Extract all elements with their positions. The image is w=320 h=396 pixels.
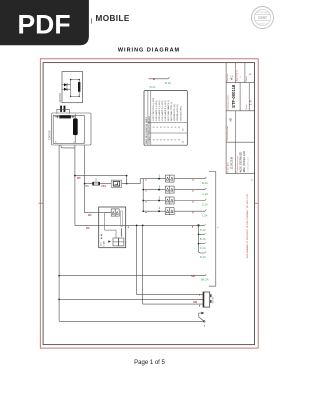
svg-text:M6: M6: [191, 274, 195, 278]
svg-text:M.C.: M.C.: [229, 74, 233, 80]
svg-text:Drawing number: Drawing number: [227, 95, 229, 110]
svg-text:F5/1: F5/1: [101, 185, 106, 188]
svg-text:APPROVED: APPROVED: [257, 11, 269, 14]
svg-text:LIVE LAMP 2 (+12V): LIVE LAMP 2 (+12V): [158, 100, 161, 121]
svg-text:D6: D6: [86, 226, 90, 230]
svg-text:B 2A: B 2A: [202, 181, 208, 185]
svg-text:C 2A: C 2A: [200, 246, 206, 250]
svg-text:2462, 1500rpm, ECU: 2462, 1500rpm, ECU: [243, 150, 246, 172]
svg-text:Sheet: Sheet: [245, 76, 248, 82]
svg-text:SIGNAL ECU (S): SIGNAL ECU (S): [173, 104, 176, 121]
svg-text:R 2A: R 2A: [200, 255, 206, 259]
svg-text:NEUTRAL CTRL (-): NEUTRAL CTRL (-): [170, 102, 173, 121]
svg-text:Checked by date: Checked by date: [226, 125, 229, 141]
svg-text:STATOR: STATOR: [48, 130, 51, 140]
svg-text:B5: B5: [88, 213, 92, 217]
svg-text:LIVE LAMP 4 (+12V): LIVE LAMP 4 (+12V): [164, 100, 167, 121]
svg-text:M2: M2: [228, 117, 232, 121]
svg-text:12.09.2016: 12.09.2016: [231, 156, 234, 169]
svg-text:Product name type: Product name type: [236, 155, 239, 173]
svg-text:WIRE DESIGNATION TABLE: WIRE DESIGNATION TABLE: [145, 116, 148, 144]
svg-text:W 2A: W 2A: [150, 86, 156, 89]
svg-text:C 2A: C 2A: [202, 192, 208, 196]
svg-text:WIRING DIAGRAM: WIRING DIAGRAM: [118, 48, 180, 54]
svg-text:GROUND (PE): GROUND (PE): [180, 106, 182, 121]
svg-text:THIS DRAWING IS PROPERTY OF TH: THIS DRAWING IS PROPERTY OF THE COMPANY …: [246, 193, 249, 259]
svg-text:L 2A: L 2A: [202, 213, 208, 217]
svg-text:M6: M6: [193, 300, 197, 304]
svg-text:Approved by: Approved by: [236, 70, 239, 81]
svg-text:CERT: CERT: [258, 16, 268, 20]
svg-text:1 :A: 1 :A: [248, 100, 252, 105]
svg-text:rev 02 custom part: rev 02 custom part: [246, 157, 249, 172]
svg-text:4x300, D233W LED: 4x300, D233W LED: [240, 152, 242, 173]
svg-text:W 2A: W 2A: [165, 81, 172, 85]
svg-text:LIVE LAMP 1 (+12V): LIVE LAMP 1 (+12V): [155, 100, 158, 121]
svg-text:NEUTRAL LAMPS (-): NEUTRAL LAMPS (-): [167, 100, 170, 121]
svg-text:D6: D6: [77, 176, 81, 180]
svg-text:Z 2A: Z 2A: [202, 203, 208, 207]
svg-text:MOBILE: MOBILE: [96, 14, 130, 23]
svg-text:STF-000118: STF-000118: [231, 84, 236, 108]
svg-text:PDF: PDF: [18, 9, 71, 39]
svg-text:M6 2A: M6 2A: [201, 277, 209, 281]
svg-text:LIVE CONTROL (+12V): LIVE CONTROL (+12V): [153, 98, 155, 121]
svg-text:--: --: [240, 76, 243, 78]
svg-text:Revision: Revision: [227, 74, 229, 82]
svg-text:Scale: Scale: [246, 104, 248, 110]
svg-text:MOTOR: MOTOR: [59, 93, 62, 102]
svg-text:CONNECTION ASSIGNMENT: CONNECTION ASSIGNMENT: [148, 115, 151, 144]
svg-text:0.4Ah: 0.4Ah: [103, 240, 106, 246]
svg-text:LIVE LAMP 3 (+12V): LIVE LAMP 3 (+12V): [161, 100, 164, 121]
svg-text:B 2A: B 2A: [200, 237, 206, 241]
svg-text:Page 1 of 5: Page 1 of 5: [134, 360, 165, 366]
svg-text:2A SAE: 2A SAE: [212, 296, 215, 304]
svg-text:A4: A4: [250, 179, 253, 181]
svg-text:Drawn date: Drawn date: [226, 161, 229, 172]
svg-text:QUALITY: QUALITY: [258, 23, 267, 26]
svg-text:SIGNAL AUX (S): SIGNAL AUX (S): [176, 104, 179, 121]
svg-text:12 V: 12 V: [101, 241, 103, 246]
svg-text:N 2A: N 2A: [200, 228, 206, 232]
